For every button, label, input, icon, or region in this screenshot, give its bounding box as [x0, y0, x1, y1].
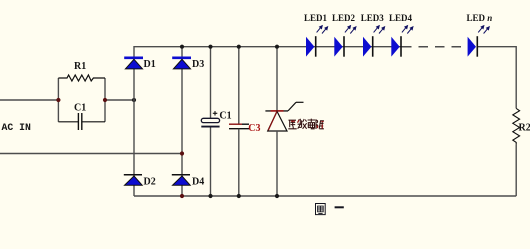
wire C1 electrolytic upper: [210, 46, 212, 118]
node varistor bottom: [275, 194, 279, 198]
wire C3 upper: [238, 46, 240, 124]
capacitor C3: [229, 124, 249, 129]
node C3 top: [237, 45, 241, 49]
wire bottom rail: [134, 195, 516, 197]
LED LED4: [391, 36, 401, 57]
svg-text:D2: D2: [144, 177, 156, 188]
arrows LED3: [374, 26, 385, 34]
red accents varistor text: [291, 120, 324, 128]
node varistor top: [275, 45, 279, 49]
RC snubber loop left edge: [57, 78, 59, 122]
node C3 bottom: [237, 194, 241, 198]
wire C3 lower: [238, 129, 240, 196]
node bridge AC top: [132, 98, 136, 102]
svg-text:LED3: LED3: [361, 13, 385, 23]
node loop left: [56, 98, 60, 102]
LED LEDn: [468, 36, 478, 57]
node C1 bottom: [208, 194, 212, 198]
node D3 top: [180, 45, 184, 49]
capacitor C1 electrolytic: [201, 118, 219, 126]
wire varistor upper: [276, 46, 278, 111]
diode D3: [172, 58, 191, 69]
diode D2: [124, 175, 142, 186]
svg-text:LED2: LED2: [332, 13, 356, 23]
svg-text:R1: R1: [74, 61, 86, 72]
node D3 D4 AC: [180, 151, 184, 155]
wire right edge lower: [515, 145, 517, 196]
svg-text:D3: D3: [192, 59, 204, 70]
resistor R1: [58, 75, 105, 81]
wire AC top right: [105, 99, 134, 101]
svg-text:LED1: LED1: [304, 13, 328, 23]
svg-text:AC IN: AC IN: [2, 122, 32, 133]
wire bridge branch D1 D2: [133, 46, 135, 196]
label figure 1: [316, 204, 344, 215]
LED LED2: [334, 36, 344, 57]
arrows LED4: [402, 26, 413, 34]
diode D1: [124, 58, 143, 69]
node C1 top: [208, 45, 212, 49]
resistor R2: [513, 108, 520, 144]
wire AC top left: [0, 99, 58, 101]
svg-text:C1: C1: [74, 103, 86, 114]
RC snubber loop right edge: [104, 78, 106, 122]
wire top rail dashed: [402, 46, 467, 48]
arrows LED1: [317, 26, 328, 34]
arrows LEDn: [478, 26, 489, 34]
label varistor chinese: [288, 119, 324, 129]
wire right edge upper: [515, 46, 517, 108]
svg-text:LED n: LED n: [467, 13, 493, 23]
varistor TVS symbol: [265, 102, 303, 131]
wire C1 electrolytic lower: [210, 128, 212, 197]
arrows LED2: [345, 26, 356, 34]
diode D4: [172, 175, 190, 186]
wire top rail after LED n: [477, 46, 516, 48]
capacitor C1 film: [58, 113, 105, 130]
LED LED1: [306, 36, 316, 57]
wire bridge branch D3 D4: [181, 46, 183, 196]
svg-text:C3: C3: [248, 123, 260, 134]
plus sign C1: [213, 111, 218, 115]
wire top rail solid: [134, 46, 403, 48]
LED LED3: [363, 36, 373, 57]
node D4 bottom: [180, 194, 184, 198]
svg-text:D4: D4: [192, 177, 204, 188]
svg-text:LED4: LED4: [389, 13, 413, 23]
node loop right: [103, 98, 107, 102]
svg-text:C1: C1: [219, 111, 231, 122]
wire varistor lower: [276, 131, 278, 196]
wire AC bottom: [0, 153, 182, 155]
svg-text:D1: D1: [144, 59, 156, 70]
svg-text:R2: R2: [519, 123, 530, 134]
